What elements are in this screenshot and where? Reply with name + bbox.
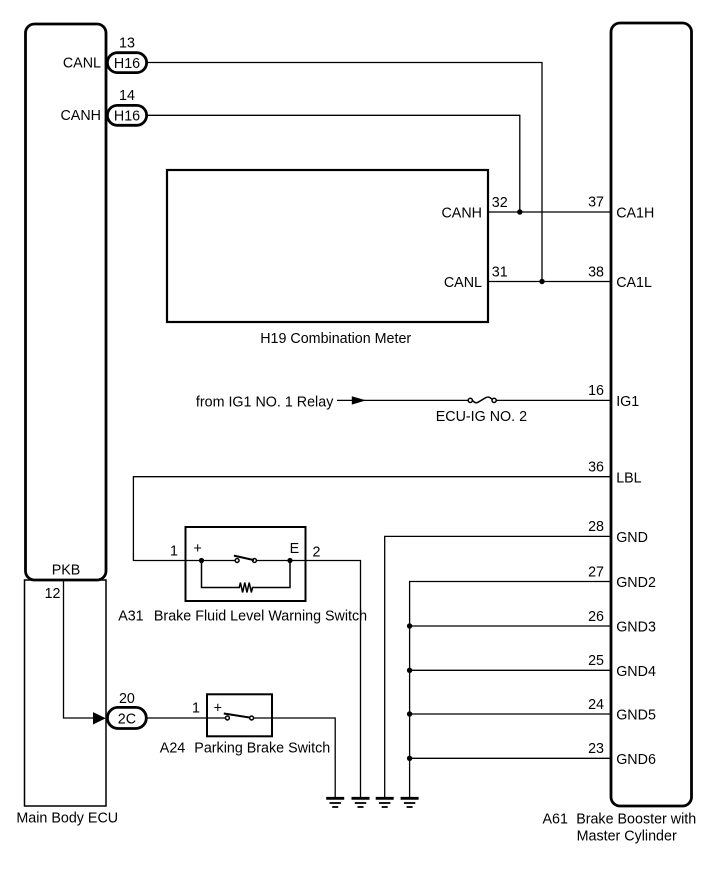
- svg-text:A61: A61: [543, 812, 568, 828]
- wire fuse to IG1 pin: [496, 399, 611, 401]
- wire A31 pin2 to ground: [306, 561, 361, 798]
- wire PKB pin 12 to 2C: [64, 580, 95, 718]
- svg-text:24: 24: [588, 697, 604, 713]
- svg-text:Parking Brake Switch: Parking Brake Switch: [194, 740, 330, 756]
- ground G1 (A24): [326, 798, 344, 807]
- wire GND3: [410, 625, 611, 627]
- svg-text:Master Cylinder: Master Cylinder: [577, 829, 677, 845]
- svg-text:14: 14: [119, 88, 135, 104]
- svg-text:27: 27: [588, 564, 604, 580]
- ECU Main Body ECU box: [26, 24, 107, 580]
- wire CANL from H16-13 to CA1L net: [148, 63, 543, 282]
- wire IG1: [337, 399, 468, 401]
- svg-text:GND5: GND5: [616, 708, 656, 724]
- switch contacts A24: [225, 716, 229, 720]
- svg-text:CANH: CANH: [441, 206, 482, 222]
- fuse ECU-IG NO. 2: [468, 398, 472, 402]
- svg-text:25: 25: [588, 653, 604, 669]
- svg-text:from IG1 NO. 1 Relay: from IG1 NO. 1 Relay: [196, 394, 334, 410]
- wire A31 internal right: [257, 560, 306, 562]
- wire meter CANL to A61 pin 38: [488, 281, 611, 283]
- svg-text:Main Body ECU: Main Body ECU: [16, 811, 118, 827]
- svg-text:20: 20: [119, 691, 135, 707]
- switch A24 Parking Brake Switch box: [207, 694, 272, 736]
- wire GND5: [410, 713, 611, 715]
- svg-text:+: +: [214, 701, 222, 717]
- wire GND2 bus: [410, 582, 611, 798]
- switch A31 Brake Fluid Level Warning Switch box: [186, 527, 306, 601]
- connector H16 pin 14: [107, 105, 146, 125]
- wire GND from A61 pin 28: [385, 536, 611, 797]
- meter H19 Combination Meter box: [167, 170, 488, 322]
- svg-text:CA1H: CA1H: [616, 206, 654, 222]
- resistor R parallel A31: [202, 561, 291, 593]
- svg-text:H16: H16: [114, 109, 140, 125]
- svg-text:IG1: IG1: [616, 394, 639, 410]
- svg-text:LBL: LBL: [616, 470, 641, 486]
- svg-text:E: E: [290, 541, 300, 557]
- svg-text:12: 12: [45, 586, 61, 602]
- ground G3 (GND): [376, 798, 394, 807]
- svg-text:CANL: CANL: [444, 275, 482, 291]
- wire 2C to A24: [147, 717, 207, 719]
- wire A24 internal right: [254, 717, 272, 719]
- svg-text:H16: H16: [114, 56, 140, 72]
- svg-text:H19 Combination Meter: H19 Combination Meter: [260, 331, 411, 347]
- connector H16 pin 13: [107, 53, 146, 73]
- switch contacts A31: [235, 559, 239, 563]
- svg-text:GND4: GND4: [616, 664, 656, 680]
- wire A31 internal left: [186, 560, 235, 562]
- junction CANL: [539, 279, 544, 284]
- svg-text:GND6: GND6: [616, 752, 656, 768]
- ECU lower thin box: [25, 580, 107, 806]
- connector 2C pin 20: [107, 707, 146, 728]
- arrow PKB: [93, 712, 106, 724]
- svg-text:GND3: GND3: [616, 620, 656, 636]
- svg-text:CA1L: CA1L: [616, 275, 652, 291]
- switch arm A31: [234, 556, 254, 561]
- arrow IG1: [352, 396, 366, 404]
- wire GND6: [410, 757, 611, 759]
- svg-text:1: 1: [170, 544, 178, 560]
- svg-text:CANH: CANH: [60, 108, 101, 124]
- wire LBL from A61 pin 36 to A31: [133, 477, 611, 561]
- svg-text:16: 16: [588, 383, 604, 399]
- svg-text:PKB: PKB: [52, 563, 81, 579]
- wire meter CANH to A61 pin 37: [488, 211, 611, 213]
- A61 Brake Booster box: [611, 23, 692, 806]
- ground G4 (GND2-6): [401, 798, 419, 807]
- svg-text:31: 31: [492, 264, 508, 280]
- svg-text:Brake Booster with: Brake Booster with: [576, 812, 696, 828]
- svg-text:Brake Fluid Level Warning Swit: Brake Fluid Level Warning Switch: [154, 608, 367, 624]
- svg-text:32: 32: [492, 195, 508, 211]
- ground G2 (A31): [352, 798, 370, 807]
- wire GND4: [410, 669, 611, 671]
- svg-text:28: 28: [588, 519, 604, 535]
- svg-text:23: 23: [588, 741, 604, 757]
- svg-text:26: 26: [588, 609, 604, 625]
- wire CANH from H16-14 to CA1H net: [148, 115, 520, 212]
- svg-text:37: 37: [588, 195, 604, 211]
- wire A24 internal left: [207, 717, 225, 719]
- svg-text:CANL: CANL: [63, 55, 101, 71]
- svg-text:2C: 2C: [118, 711, 136, 727]
- svg-text:2: 2: [313, 545, 321, 561]
- svg-text:1: 1: [192, 700, 200, 716]
- svg-text:36: 36: [588, 460, 604, 476]
- svg-text:GND2: GND2: [616, 575, 656, 591]
- node A31 left junction: [199, 558, 204, 563]
- svg-text:13: 13: [119, 35, 135, 51]
- svg-text:38: 38: [588, 264, 604, 280]
- svg-text:+: +: [194, 541, 202, 557]
- wire A24 to ground: [272, 718, 335, 797]
- junction CANH: [517, 209, 522, 214]
- switch arm A24: [224, 714, 251, 718]
- node A31 right junction: [287, 558, 292, 563]
- svg-text:A31: A31: [118, 608, 143, 624]
- svg-text:GND: GND: [616, 530, 648, 546]
- svg-text:ECU-IG NO. 2: ECU-IG NO. 2: [436, 409, 527, 425]
- svg-text:A24: A24: [160, 740, 185, 756]
